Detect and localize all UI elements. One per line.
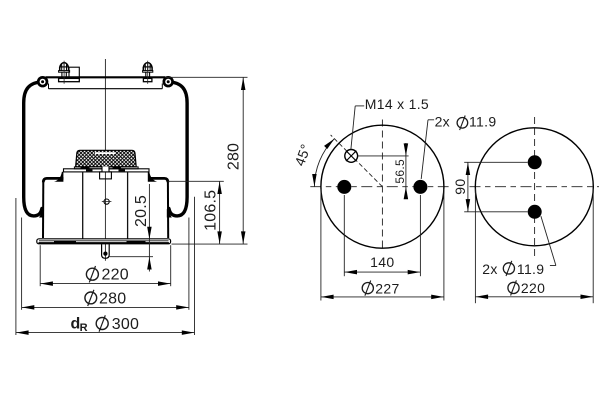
vertical centerline <box>534 117 536 256</box>
dimension dR Ø300 (rolling diameter) <box>16 197 195 335</box>
svg-text:90: 90 <box>452 179 468 195</box>
left stud bolt M <box>59 61 80 84</box>
dimension 20.5 <box>109 184 153 272</box>
rubber bumper (crosshatched) <box>76 150 137 167</box>
label M14 x 1.5 with leader <box>351 96 429 149</box>
bumper base plate <box>74 167 138 169</box>
label 2x Ø11.9 (middle view) with leader <box>421 113 496 178</box>
label 2x Ø11.9 (right view) with leader <box>482 216 556 277</box>
svg-text:20.5: 20.5 <box>133 195 150 227</box>
piston base plate <box>37 239 171 244</box>
dimension 56.5 <box>358 143 409 199</box>
bolt hole right <box>413 180 427 194</box>
dimension Ø220 (right view) <box>475 189 593 304</box>
svg-text:300: 300 <box>112 316 139 333</box>
dimension 90 <box>452 162 528 212</box>
piston top surface left <box>43 178 63 182</box>
piston top surface right <box>149 178 168 182</box>
horizontal centerline <box>470 186 600 188</box>
svg-text:11.9: 11.9 <box>469 113 496 129</box>
svg-text:2x: 2x <box>435 113 450 129</box>
bolt hole bottom <box>528 205 542 219</box>
piston outer skirt right <box>167 182 169 238</box>
bellows-to-piston fillet left <box>54 172 63 182</box>
piston inner wall left <box>82 172 84 239</box>
dimension 280 (height) <box>165 77 247 244</box>
center boss below flange <box>100 172 112 179</box>
svg-text:R: R <box>80 322 88 334</box>
dimension 106.5 <box>168 181 224 244</box>
dimension Ø227 <box>321 189 444 301</box>
bumper central tongue <box>102 166 108 172</box>
svg-text:11.9: 11.9 <box>517 261 544 277</box>
piston outer skirt left <box>42 182 44 238</box>
main vertical centerline <box>104 59 106 261</box>
bellows lobe tip left <box>39 209 44 218</box>
bead roll left <box>37 76 48 87</box>
piston inner wall right <box>127 172 129 239</box>
bead roll right <box>163 76 174 87</box>
dimension Ø220 (base plate) <box>40 245 171 286</box>
plate circle Ø220 <box>475 128 593 246</box>
dimension 140 <box>344 195 420 276</box>
svg-text:220: 220 <box>102 266 129 283</box>
dimension Ø280 (bellows) <box>22 218 189 310</box>
bellows wall left <box>24 82 44 216</box>
vertical centerline <box>381 120 383 251</box>
svg-text:2x: 2x <box>482 261 497 277</box>
svg-text:227: 227 <box>375 280 399 296</box>
svg-text:140: 140 <box>370 254 394 270</box>
bellows-to-piston fillet right <box>148 172 157 182</box>
bellows lobe tip right <box>167 209 172 218</box>
small hole on piston <box>104 199 109 204</box>
svg-text:106.5: 106.5 <box>202 190 219 231</box>
piston top flange <box>64 169 150 172</box>
svg-text:280: 280 <box>226 143 243 170</box>
svg-text:56.5: 56.5 <box>393 159 407 184</box>
bellows wall right <box>168 82 188 216</box>
45 degree arc dimension <box>291 137 336 187</box>
svg-text:220: 220 <box>521 280 545 296</box>
45 degree dashed line <box>331 135 383 187</box>
plate circle Ø227 <box>321 125 444 248</box>
right stud bolt <box>143 61 153 84</box>
svg-text:M14 x 1.5: M14 x 1.5 <box>365 96 429 112</box>
bolt hole top <box>528 155 542 169</box>
M14 threaded hole <box>345 150 358 163</box>
bottom stud <box>102 244 110 258</box>
bolt hole left <box>337 180 351 194</box>
top plate <box>46 76 166 78</box>
horizontal centerline <box>310 186 448 188</box>
svg-text:280: 280 <box>99 290 126 307</box>
